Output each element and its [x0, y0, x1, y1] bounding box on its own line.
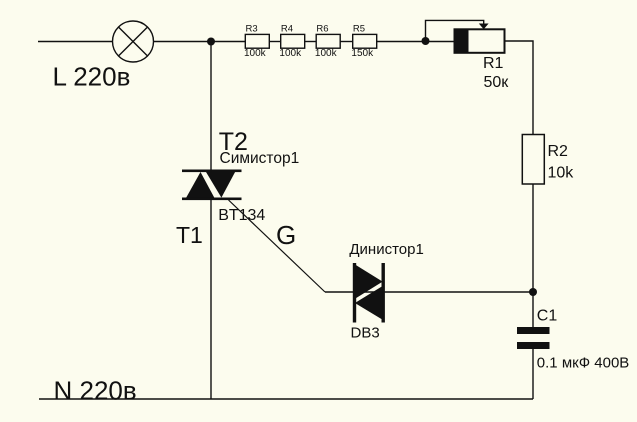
svg-text:C1: C1	[537, 308, 558, 325]
resistor R6	[315, 23, 340, 58]
wire R5 to potentiometer	[377, 41, 455, 43]
wire: node down to triac T2	[210, 42, 212, 170]
wire: AC line input left segment	[38, 41, 113, 43]
wire R6-R5	[340, 41, 353, 43]
wire neutral rail	[39, 398, 533, 400]
svg-text:N 220в: N 220в	[54, 375, 137, 405]
svg-text:Динистор1: Динистор1	[349, 241, 423, 258]
wire R3-R4	[269, 41, 280, 43]
svg-text:10k: 10k	[548, 165, 575, 182]
wire R2 down to C1	[532, 184, 534, 327]
svg-text:R5: R5	[353, 23, 365, 34]
triac T2 symbol	[182, 170, 242, 201]
svg-text:T1: T1	[176, 222, 203, 248]
svg-text:150k: 150k	[351, 48, 374, 59]
capacitor C1	[517, 308, 629, 372]
wire gate diagonal	[229, 200, 326, 292]
wire triac to neutral rail	[210, 200, 212, 399]
svg-text:R1: R1	[483, 55, 504, 72]
wire R4-R6	[305, 41, 317, 43]
wire: wiper connection	[426, 20, 484, 41]
svg-text:G: G	[276, 220, 296, 250]
svg-text:Симистор1: Симистор1	[220, 150, 300, 167]
svg-text:R6: R6	[316, 23, 328, 34]
svg-text:100k: 100k	[315, 48, 338, 59]
node junction at lamp/triac branch	[207, 38, 215, 46]
svg-text:100k: 100k	[244, 48, 267, 59]
wire gate horizontal to node	[325, 291, 533, 293]
node junction at wiper tap	[422, 37, 430, 45]
diac symbol	[353, 263, 385, 323]
svg-text:100k: 100k	[279, 48, 302, 59]
wire C1 to neutral rail	[532, 349, 534, 399]
svg-text:R4: R4	[281, 23, 293, 34]
potentiometer R1 body	[455, 29, 505, 53]
svg-text:DB3: DB3	[351, 325, 380, 342]
wiper arrowhead	[479, 24, 489, 30]
resistor R5	[351, 23, 376, 58]
svg-text:L 220в: L 220в	[53, 62, 131, 92]
svg-text:R3: R3	[246, 23, 258, 34]
wire pot to right rail	[505, 41, 534, 135]
resistor R4	[279, 23, 304, 58]
svg-text:R2: R2	[548, 143, 569, 160]
svg-text:50к: 50к	[484, 74, 510, 91]
resistor R3	[244, 23, 269, 58]
lamp L (circle with X)	[113, 21, 154, 62]
resistor R2	[522, 135, 574, 185]
svg-text:BT134: BT134	[218, 207, 265, 224]
node junction at diac/C1	[529, 288, 537, 296]
svg-text:0.1 мкФ 400В: 0.1 мкФ 400В	[537, 355, 630, 372]
wire: lamp to R3 through node	[154, 41, 246, 43]
